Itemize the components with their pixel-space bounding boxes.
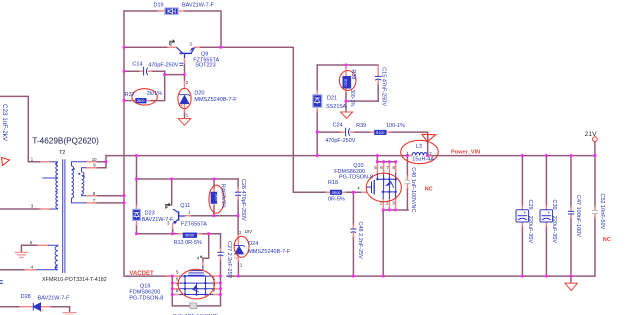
wire transformer pin4 [0,269,25,271]
wire C47 branch [570,156,572,207]
red annotation ellipse L3 [401,140,439,163]
svg-text:R39: R39 [356,123,366,129]
red net labels [129,149,610,277]
svg-text:C27 2.2nF-25V: C27 2.2nF-25V [226,241,232,279]
resistor R39 [375,130,387,135]
svg-text:C14: C14 [132,61,142,67]
wire D28 row [0,306,20,308]
svg-text:15uH-4A: 15uH-4A [412,157,434,163]
zener D20 [179,94,190,104]
svg-text:R100: R100 [376,131,385,135]
red tick marks D28 [40,310,43,313]
ground triangle D20 [178,119,191,126]
capacitor C29 electrolytic [516,210,529,222]
red annotation ellipse R38 [339,71,356,91]
resistor R13 [183,233,197,238]
transistor Q11 [173,209,185,223]
GROUND earth pin5 [14,252,28,257]
transformer secondary winding B [82,168,87,172]
diode D19 boxed [164,8,178,15]
red annotation ellipse R40 [209,185,224,213]
capacitor C27 [217,252,223,256]
svg-text:470pF-250V: 470pF-250V [148,63,179,69]
transformer T2 [36,159,86,273]
capacitor C40 grey NC [405,180,411,183]
svg-text:R38: R38 [350,69,356,79]
wire snubber top [317,64,378,66]
wire snubber bottom [346,100,378,102]
capacitor C24 [346,128,350,137]
transformer polarity dots [55,163,85,269]
svg-text:NC: NC [425,186,433,192]
wire ground stub bottom right [570,276,572,283]
resistor R45 grey NC box [190,303,197,309]
red annotation arrow L3 [422,134,436,141]
svg-text:C30: C30 [551,200,557,210]
capacitor C48 [350,229,356,233]
svg-text:T-4629B(PQ2620): T-4629B(PQ2620) [32,137,99,146]
transistor Q9 [177,47,195,58]
svg-text:BAV21W-7-F: BAV21W-7-F [182,3,215,9]
wire C14 row [124,70,140,72]
resistor R40 [211,192,219,204]
left edge component fragment [0,281,3,284]
svg-text:R40: R40 [220,184,226,194]
red annotation fragment left edge [2,158,10,166]
svg-text:0R00: 0R00 [185,234,194,238]
svg-text:470pF-250V: 470pF-250V [325,138,356,144]
wire transformer pin5 to ground [21,245,38,251]
wire R38 bottom [345,92,347,112]
wire pin10 riser [96,156,106,162]
svg-text:PG-TDSON-8: PG-TDSON-8 [339,174,373,180]
diode D28 [33,303,40,310]
svg-text:R13 0R-5%: R13 0R-5% [174,240,203,246]
wire C48 branch [352,192,354,225]
transformer aux winding pins 5-4 [48,244,58,247]
21V terminal [593,137,598,142]
resistor R37 [136,98,147,103]
wire C30 branch [545,156,547,206]
MOSFET Q10 internals [367,173,397,199]
wire R13 row [137,233,180,235]
svg-text:3010: 3010 [343,79,347,87]
red annotation ellipse R37 [132,89,157,105]
svg-text:T2: T2 [59,150,65,156]
svg-text:2k/1%: 2k/1% [147,91,162,97]
svg-text:XFMR10-POT3314-T-4182: XFMR10-POT3314-T-4182 [42,277,107,283]
wire bottom bus [166,275,173,277]
svg-text:2k00: 2k00 [215,194,219,201]
wire y179 row [137,178,239,180]
capacitor C14 [144,67,148,76]
inductor L3 [412,152,427,155]
wire C15 bottom [377,84,379,101]
svg-text:C47 100nF-100V: C47 100nF-100V [575,195,581,237]
red tick marks D20 [179,104,182,106]
wire Q11 collector riser [171,179,173,205]
svg-text:C52 10nF-50V: C52 10nF-50V [599,194,605,230]
resistor R18 [330,190,342,195]
capacitor C15 [375,76,382,80]
svg-text:220uF-35V: 220uF-35V [527,216,533,244]
svg-text:0R-5%: 0R-5% [328,197,345,203]
capacitor C26 [235,192,241,196]
wire Q16 gate jog [203,234,209,262]
svg-text:C29: C29 [527,200,533,210]
svg-text:SS215A: SS215A [326,104,347,110]
svg-text:220uF-35V: 220uF-35V [551,216,557,244]
wire left-top C23 feed [0,96,41,161]
svg-text:D23: D23 [145,211,155,217]
transformer primary winding upper [51,161,59,163]
wire C29 branch [521,156,523,206]
wire D21 branch [316,65,318,91]
svg-text:D20: D20 [194,90,204,96]
wire Q10 drain riser + header [376,156,378,162]
svg-text:FZT655TA: FZT655TA [181,222,207,228]
wire pin9 [96,162,106,168]
transformer secondary winding A [72,162,87,166]
svg-text:PG-TDSON-8: PG-TDSON-8 [129,295,163,301]
resistor R38 [343,76,351,88]
svg-text:21V: 21V [585,131,598,138]
svg-text:C26 470pF-250V: C26 470pF-250V [240,179,246,221]
svg-text:C48 2.2nF-25V: C48 2.2nF-25V [357,222,363,260]
svg-text:SOT223: SOT223 [195,63,215,69]
ground triangle bottom right [565,283,577,290]
svg-text:D19: D19 [154,3,164,9]
red annotation ellipse D20 [178,88,191,108]
pin2 hook arrow Q11 [166,203,171,209]
svg-text:Q11: Q11 [180,203,190,209]
capacitor C30 electrolytic [540,210,553,222]
svg-text:C24: C24 [333,123,343,129]
wire Q10 source row + drop [383,209,408,211]
wire C52 top [594,156,596,207]
wire 21V riser [594,142,596,156]
wire D24 branch [237,216,239,235]
wire D19 top [124,10,158,12]
svg-text:C15 47nF-250V: C15 47nF-250V [381,67,387,106]
ground triangle R38 [341,112,353,118]
wire main rail [106,155,407,157]
wire Q16 left column [172,276,220,306]
svg-text:2k00: 2k00 [137,99,145,103]
wire Q9 row [124,46,168,48]
pin2 hook arrow Q9 [170,40,175,46]
red annotation ellipse Q10 [366,173,401,202]
svg-text:R37: R37 [125,92,135,98]
svg-text:C23 1nF-2kV: C23 1nF-2kV [1,104,8,142]
svg-text:D21: D21 [327,95,337,101]
red annotation ellipse Q16 [178,269,214,299]
svg-text:300-1%: 300-1% [349,89,355,107]
svg-text:10V: 10V [245,229,253,234]
svg-text:0R00: 0R00 [332,191,341,195]
wire Q9 base to D20 [184,63,186,82]
wire D19 top loop left vertical / VACDET vertical [124,11,172,276]
svg-text:2k/1%: 2k/1% [220,194,226,208]
svg-text:NC: NC [603,237,611,243]
wire D23 branch vertical [136,156,138,206]
svg-text:MMSZ5240B-7-F: MMSZ5240B-7-F [248,249,291,255]
pin4 hook arrow Q16 [200,256,202,258]
zener D24 [234,244,245,254]
transformer core [62,159,64,273]
svg-text:Q9: Q9 [201,52,208,58]
red tick marks D24 [234,257,237,259]
wire Q11 base row [190,215,238,217]
svg-text:100-1%: 100-1% [386,123,405,129]
diode D23 boxed [132,209,140,221]
wire R40 branch [213,179,215,189]
MOSFET Q16 internals [180,266,214,295]
svg-text:R18: R18 [328,180,338,186]
wire R37 loop [124,100,132,102]
ground earth D28 [63,313,77,315]
text labels blue [21,3,435,315]
svg-text:BAV21W-7-F: BAV21W-7-F [38,296,71,302]
capacitor C52 grey NC [592,211,598,214]
diode D21 boxed [312,94,322,107]
wire C27 branch [209,234,221,249]
wire transformer pin3 [0,208,40,210]
svg-text:10: 10 [92,157,97,162]
capacitor C47 [568,211,574,214]
red annotation ellipse D24 [234,236,249,257]
svg-text:C40 1nF-100V/NC: C40 1nF-100V/NC [410,167,416,212]
transformer primary winding lower [56,193,58,209]
wire D20 to ground [184,112,186,118]
svg-text:Power_VIN: Power_VIN [451,149,480,155]
transformer primary tap [42,177,58,179]
svg-text:VACDET: VACDET [129,271,154,277]
svg-text:MMSZ5240B-7-F: MMSZ5240B-7-F [194,97,237,103]
wire C40 branch [406,156,408,176]
wire C26 branch [237,179,239,188]
wire R18 to gate [346,191,363,193]
svg-text:D24: D24 [248,241,258,247]
wire pins 8,7 [96,195,124,197]
rotated blue labels [1,67,605,278]
wire C24 R39 row [317,131,341,133]
svg-text:D28: D28 [21,294,31,300]
black pin number labels [30,41,433,293]
wire Q11 emitter drop [172,228,174,234]
svg-text:L3: L3 [416,144,422,150]
